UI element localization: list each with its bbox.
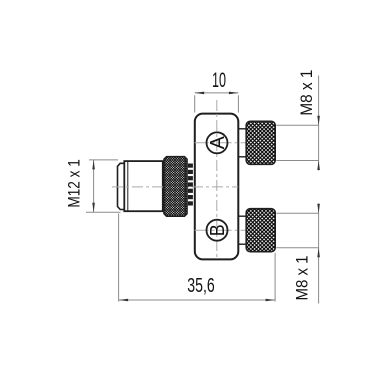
svg-text:B: B xyxy=(207,224,229,236)
port B circle xyxy=(207,220,228,241)
centerline A axis xyxy=(195,142,276,144)
svg-text:10: 10 xyxy=(212,68,226,92)
dim M8x1 bottom: extension lines xyxy=(276,212,318,214)
body plate xyxy=(195,114,239,260)
M8 knurl B xyxy=(246,209,275,252)
dim M12x1: extension lines xyxy=(89,159,118,161)
dim M12x1: arrows xyxy=(92,160,95,170)
M12 coupling knurl ring xyxy=(164,157,187,217)
centerline M12 axis xyxy=(112,186,238,188)
dim 10: dimension line xyxy=(195,92,239,94)
dim M8x1 bottom: dimension line xyxy=(318,204,320,304)
centerline B axis xyxy=(195,229,276,231)
dim M12x1: dimension line xyxy=(93,160,95,212)
locking teeth between knurl and plate xyxy=(188,164,193,206)
dim M8x1 top: extension lines xyxy=(276,124,318,126)
svg-text:M8 x 1: M8 x 1 xyxy=(298,70,316,116)
svg-text:A: A xyxy=(207,136,229,150)
svg-text:M12 x 1: M12 x 1 xyxy=(65,159,84,208)
neck port B xyxy=(238,216,246,244)
dim M8x1 top: dimension line xyxy=(318,76,320,171)
dim 35,6: arrows xyxy=(119,299,129,302)
dim M8x1 top: arrows xyxy=(317,116,320,126)
M12 knurl inner right edge xyxy=(184,158,186,216)
port A circle xyxy=(207,132,228,153)
M8 knurl A xyxy=(246,121,275,164)
dim M8x1 bottom: arrows xyxy=(317,204,320,214)
M12 cylinder inner edge line xyxy=(127,162,129,211)
dim 35,6: extension lines xyxy=(118,214,120,302)
svg-text:M8 x 1: M8 x 1 xyxy=(294,256,312,301)
M12 body cylinder xyxy=(124,161,163,211)
dim 10: extension lines xyxy=(194,95,196,112)
M12 thread end band xyxy=(118,163,125,209)
dim 10: arrows xyxy=(195,92,205,95)
dim 35,6: dimension line xyxy=(119,299,276,301)
neck port A xyxy=(238,129,246,157)
svg-text:35,6: 35,6 xyxy=(187,274,215,297)
centerline vertical (plate axis) xyxy=(216,100,218,259)
